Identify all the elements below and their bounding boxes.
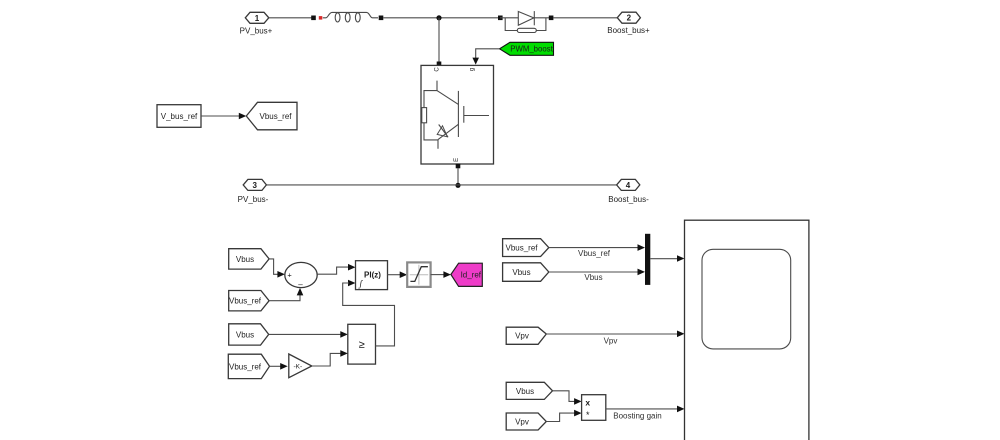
svg-text:*: *	[586, 410, 590, 420]
wire Vbus_ref to gain	[270, 365, 282, 367]
wire diode to port 2	[553, 17, 617, 19]
constant block V_bus_ref	[157, 105, 201, 128]
wire sum to PI	[317, 267, 349, 274]
wire top bus to collector	[438, 18, 440, 62]
arrowhead	[443, 271, 451, 278]
arrowhead	[340, 350, 348, 357]
svg-text:–: –	[298, 280, 303, 289]
arrowhead	[677, 255, 685, 262]
wire Vpv to scope	[546, 333, 678, 335]
port square C	[437, 62, 442, 67]
svg-text:Id_ref: Id_ref	[461, 271, 482, 280]
arrowhead	[574, 410, 582, 417]
arrowhead	[638, 269, 646, 276]
red marker	[319, 16, 323, 20]
wire inductor to diode	[383, 17, 500, 19]
wire gain to relational second input	[312, 353, 341, 366]
junction square	[311, 16, 316, 21]
From tag Vbus (relational input)	[229, 324, 269, 345]
svg-text:Vpv: Vpv	[515, 418, 529, 427]
sum block	[285, 262, 317, 289]
svg-text:Vbus: Vbus	[584, 273, 602, 282]
wire bottom bus	[266, 184, 616, 186]
svg-text:Vbus: Vbus	[236, 330, 254, 339]
port 2 Boost_bus+	[607, 12, 650, 35]
From tag Vbus (product input)	[506, 382, 552, 399]
mux	[645, 234, 650, 285]
svg-text:x: x	[585, 398, 590, 408]
svg-text:1: 1	[255, 14, 260, 23]
Goto tag Vbus_ref	[246, 102, 297, 130]
wire Vbus_ref to sum minus	[269, 295, 300, 301]
wire Vbus to relational	[269, 333, 342, 335]
svg-text:Vbus_ref: Vbus_ref	[505, 244, 538, 253]
From tag PWM_boost	[500, 42, 554, 55]
svg-text:PV_bus+: PV_bus+	[240, 27, 273, 36]
svg-text:Vbus: Vbus	[516, 387, 534, 396]
wire mux to scope	[650, 258, 678, 260]
svg-text:E: E	[454, 158, 460, 162]
scope	[685, 220, 809, 440]
wire Vpv to product	[546, 413, 575, 421]
svg-text:Vbus_ref: Vbus_ref	[229, 362, 262, 371]
PID controller PI(z)	[356, 261, 388, 290]
svg-text:Boost_bus-: Boost_bus-	[608, 195, 649, 204]
arrowhead	[677, 331, 685, 338]
diode D with snubber	[498, 11, 553, 32]
wire saturation to Id_ref	[431, 274, 445, 276]
arrowhead	[638, 244, 646, 251]
arrowhead	[239, 113, 247, 120]
arrowhead PI lower input	[348, 280, 356, 287]
port 3 PV_bus-	[238, 179, 269, 203]
svg-text:Vbus: Vbus	[236, 255, 254, 264]
arrowhead	[277, 271, 285, 278]
svg-text:g: g	[470, 68, 476, 71]
node junction dot top bus	[436, 15, 441, 20]
junction square	[379, 16, 384, 21]
wire V_bus_ref to goto	[201, 115, 240, 117]
svg-text:Vbus_ref: Vbus_ref	[259, 112, 292, 121]
svg-text:PI(z): PI(z)	[364, 270, 381, 279]
arrowhead gate	[472, 58, 479, 65]
port 4 Boost_bus-	[608, 179, 649, 203]
svg-text:Vbus_ref: Vbus_ref	[578, 249, 611, 258]
From tag Vbus (mux input)	[503, 263, 549, 282]
wire Vbus to sum	[269, 259, 278, 274]
svg-text:Vbus: Vbus	[512, 268, 530, 277]
svg-text:4: 4	[626, 181, 631, 190]
divide block	[582, 395, 606, 421]
svg-text:Vpv: Vpv	[604, 337, 618, 346]
svg-text:Boost_bus+: Boost_bus+	[607, 26, 650, 35]
svg-text:2: 2	[627, 14, 632, 23]
From tag Vpv (product input)	[506, 413, 546, 430]
svg-text:PWM_boost: PWM_boost	[510, 45, 553, 54]
saturation block	[407, 262, 430, 287]
wire Vbus to mux	[549, 271, 639, 273]
From tag Vbus (sum input)	[229, 249, 269, 269]
From tag Vbus_ref (sum input)	[229, 291, 269, 311]
svg-text:-K-: -K-	[293, 364, 302, 371]
From tag Vbus_ref (gain input)	[228, 354, 269, 378]
port square E	[456, 164, 461, 169]
From tag Vpv (scope input)	[506, 327, 546, 344]
svg-text:≥: ≥	[359, 339, 365, 351]
arrowhead	[348, 264, 356, 271]
Goto tag Id_ref	[451, 263, 482, 286]
IGBT U1	[421, 65, 494, 164]
node junction dot bottom bus	[455, 183, 460, 188]
svg-text:V_bus_ref: V_bus_ref	[161, 112, 198, 121]
port 1 PV_bus+	[240, 12, 273, 35]
arrowhead	[340, 331, 348, 338]
arrowhead	[280, 363, 288, 370]
wire port1 to inductor	[269, 17, 314, 19]
wire PI to saturation	[388, 274, 401, 276]
svg-text:Vpv: Vpv	[515, 332, 529, 341]
wire emitter to bottom bus	[457, 168, 459, 184]
arrowhead	[574, 398, 582, 405]
feedback wire relational to PI	[343, 283, 395, 346]
wire product to scope	[606, 408, 678, 410]
gain -K-	[289, 354, 312, 378]
arrowhead up	[297, 288, 304, 296]
wire Vbus to product	[553, 391, 576, 402]
arrowhead	[400, 271, 408, 278]
wire PWM_boost to gate	[476, 49, 500, 58]
svg-text:Boosting gain: Boosting gain	[613, 412, 661, 421]
svg-text:PV_bus-: PV_bus-	[238, 195, 269, 204]
inductor L	[323, 12, 378, 22]
arrowhead	[677, 406, 685, 413]
svg-text:Vbus_ref: Vbus_ref	[229, 297, 262, 306]
svg-text:3: 3	[252, 181, 257, 190]
relational operator >=	[348, 324, 376, 364]
wire Vbus_ref to mux	[549, 247, 639, 249]
svg-text:+: +	[287, 271, 292, 280]
From tag Vbus_ref (mux input)	[503, 239, 549, 257]
svg-text:C: C	[435, 67, 441, 72]
